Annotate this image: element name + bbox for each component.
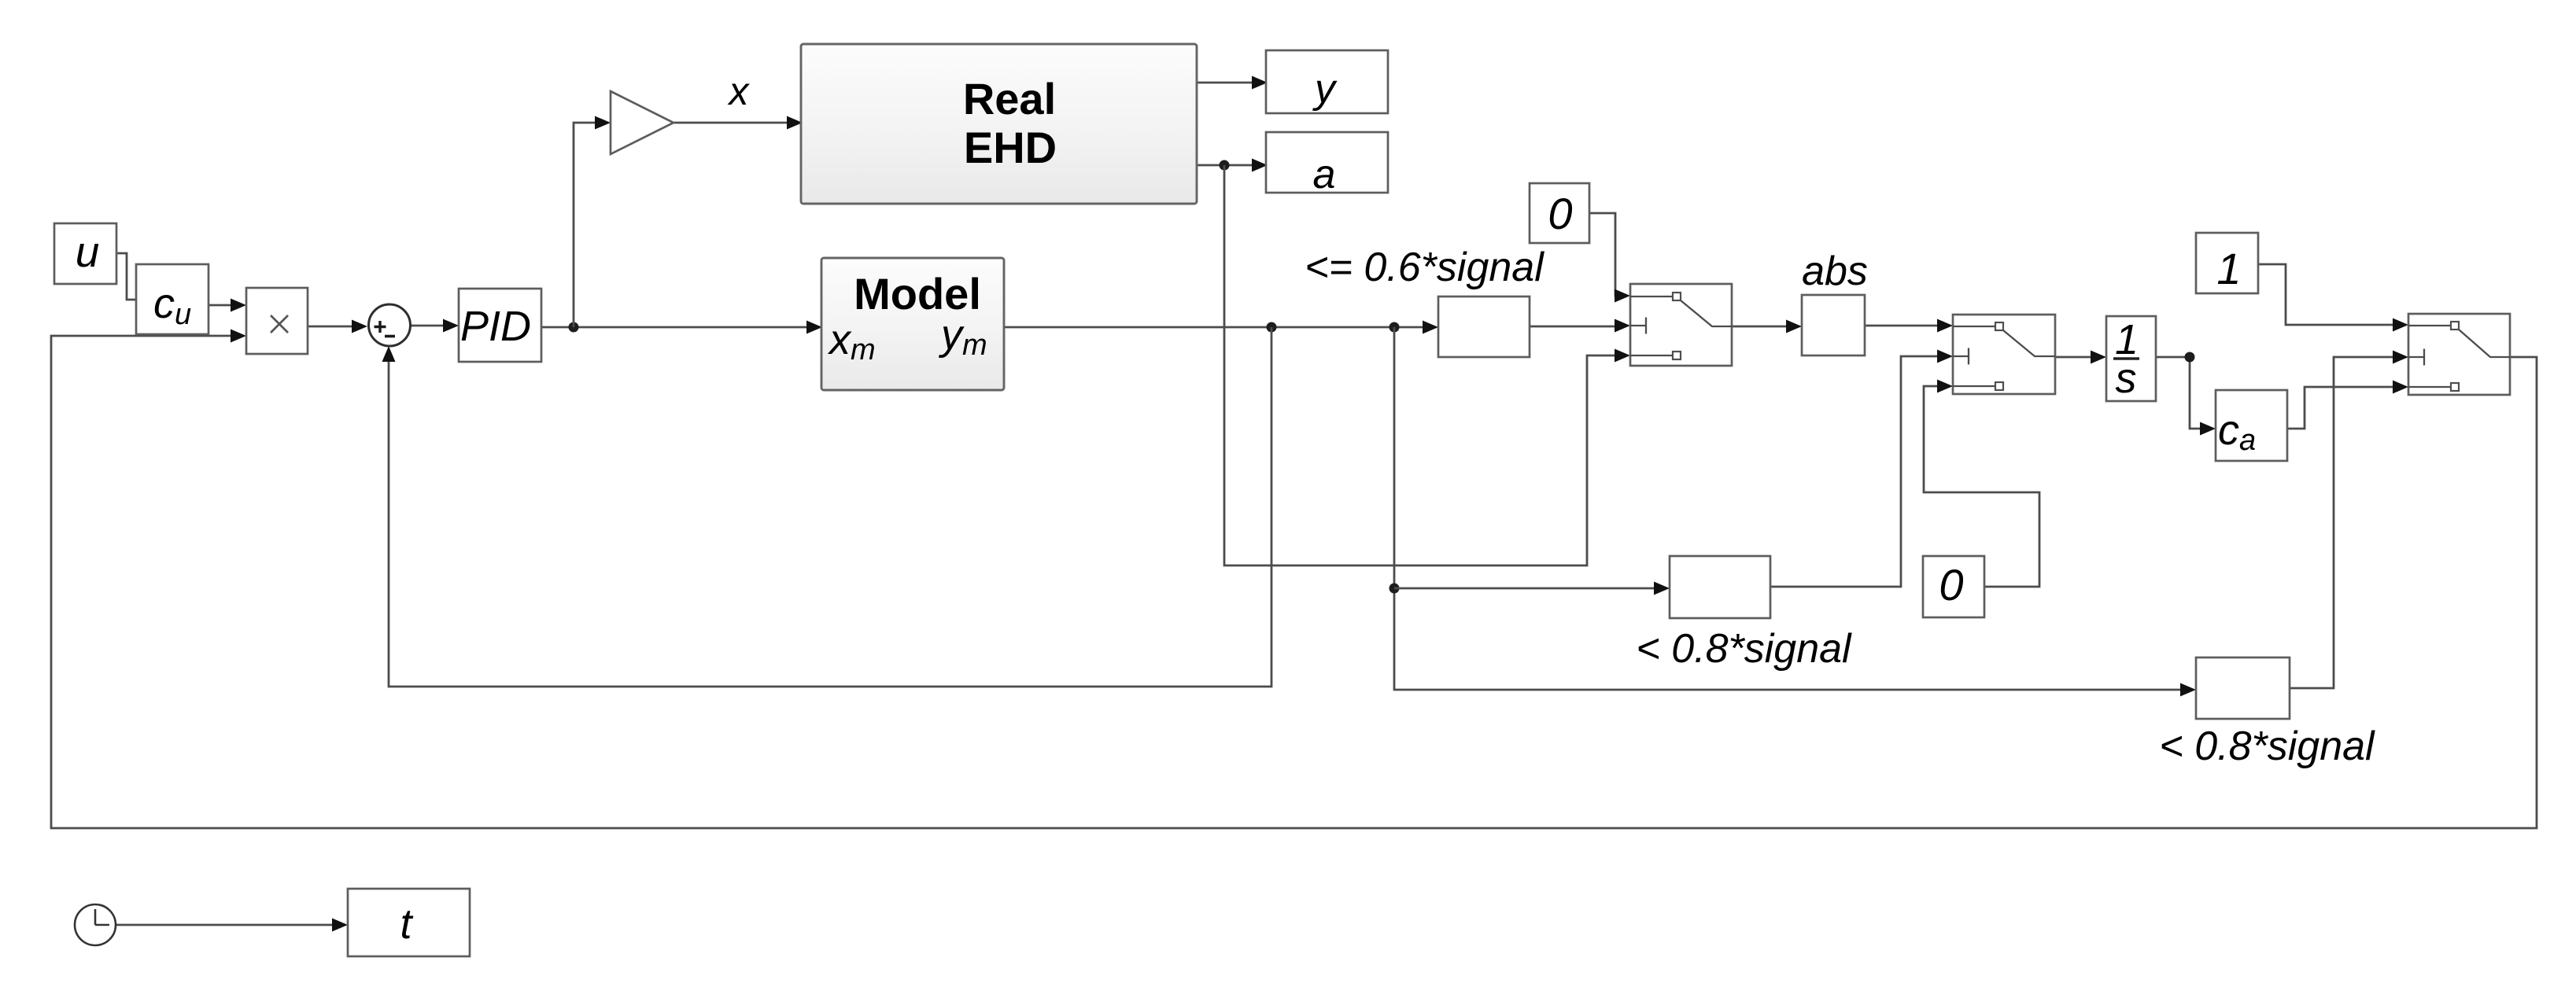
wire ca to switch3 bottom	[2288, 387, 2394, 429]
svg-text:a: a	[1313, 152, 1336, 197]
wire integrator junction down to ca	[2157, 357, 2201, 429]
svg-text:<= 0.6*signal: <= 0.6*signal	[1305, 245, 1544, 290]
Model block	[821, 258, 1004, 390]
wire PID to Model with junction	[541, 326, 808, 329]
scope t	[348, 889, 470, 956]
Real EHD block	[801, 44, 1197, 204]
svg-text:abs: abs	[1802, 249, 1868, 294]
svg-text:x: x	[728, 69, 751, 113]
wire cu to product	[209, 304, 232, 307]
svg-text:1: 1	[2216, 244, 2241, 293]
compare2 block	[1670, 556, 1770, 618]
wire feedback model output down and left to sum bottom	[389, 327, 1271, 687]
PID block	[459, 289, 541, 362]
wire product to sum	[308, 326, 353, 328]
wire Model output to compare1	[1004, 326, 1424, 329]
wire compare1 to switch1 middle	[1530, 326, 1616, 328]
abs block	[1802, 295, 1865, 355]
node junction a output	[1220, 160, 1230, 171]
wire switch1 to abs	[1732, 326, 1788, 328]
clock	[75, 904, 116, 945]
wire sum to PID	[411, 325, 445, 327]
constant one	[2196, 233, 2258, 293]
wire constant zero2 to switch2 bottom	[1924, 386, 2039, 587]
wire abs to switch2 top	[1865, 325, 1939, 327]
node junction PID output	[569, 322, 579, 333]
svg-text:0: 0	[1548, 189, 1572, 238]
svg-text:u: u	[76, 227, 100, 276]
wire clock to t	[116, 924, 334, 926]
node junction integrator output	[2185, 352, 2195, 363]
gain cu	[136, 264, 209, 334]
svg-text:0: 0	[1939, 560, 1963, 610]
wire Real EHD to a	[1197, 164, 1253, 167]
node junction lower branch	[1389, 584, 1400, 594]
svg-text:y: y	[1312, 66, 1338, 112]
wire compare3 up to switch3 middle	[2290, 357, 2394, 688]
wire constant zero1 to switch1 top	[1589, 213, 1616, 296]
product block	[246, 288, 308, 354]
wire model output branch down to lower compare blocks	[1394, 327, 2182, 690]
switch Switch3	[2408, 314, 2510, 395]
gain ca	[2216, 390, 2287, 461]
compare1 block	[1438, 296, 1530, 357]
scope a	[1266, 132, 1388, 197]
node junction model output 1	[1267, 322, 1277, 333]
wire switch2 to integrator	[2055, 356, 2092, 359]
wire constant one to switch3 top	[2258, 264, 2394, 325]
wire junction up to gain	[574, 123, 596, 327]
wire feedback from switch3 output around bottom to product input	[51, 336, 2537, 828]
wire Real EHD to y	[1197, 82, 1253, 84]
wire u to cu	[116, 253, 136, 300]
compare3 block	[2196, 657, 2290, 719]
gain triangle	[611, 91, 674, 154]
wire compare2 to switch2 middle	[1770, 356, 1939, 587]
integrator block 1/s	[2106, 316, 2156, 402]
sum block	[369, 304, 411, 346]
scope y	[1266, 50, 1388, 113]
svg-text:s: s	[2116, 355, 2137, 402]
node junction model output 2	[1389, 322, 1400, 333]
wire a branch down and across to switch1 bottom input	[1224, 165, 1616, 565]
constant zero2	[1923, 556, 1984, 617]
switch Switch2	[1953, 315, 2055, 394]
wire gain to Real EHD	[674, 122, 788, 124]
svg-text:PID: PID	[460, 303, 531, 350]
constant zero1	[1530, 183, 1589, 243]
svg-text:t: t	[400, 900, 413, 948]
svg-text:EHD: EHD	[964, 123, 1057, 172]
constant u	[54, 223, 116, 284]
switch Switch1	[1630, 284, 1732, 366]
svg-text:Real: Real	[963, 74, 1056, 123]
svg-text:< 0.8*signal: < 0.8*signal	[2159, 724, 2375, 769]
wire branch to compare2	[1394, 587, 1655, 590]
svg-text:< 0.8*signal: < 0.8*signal	[1636, 626, 1852, 672]
